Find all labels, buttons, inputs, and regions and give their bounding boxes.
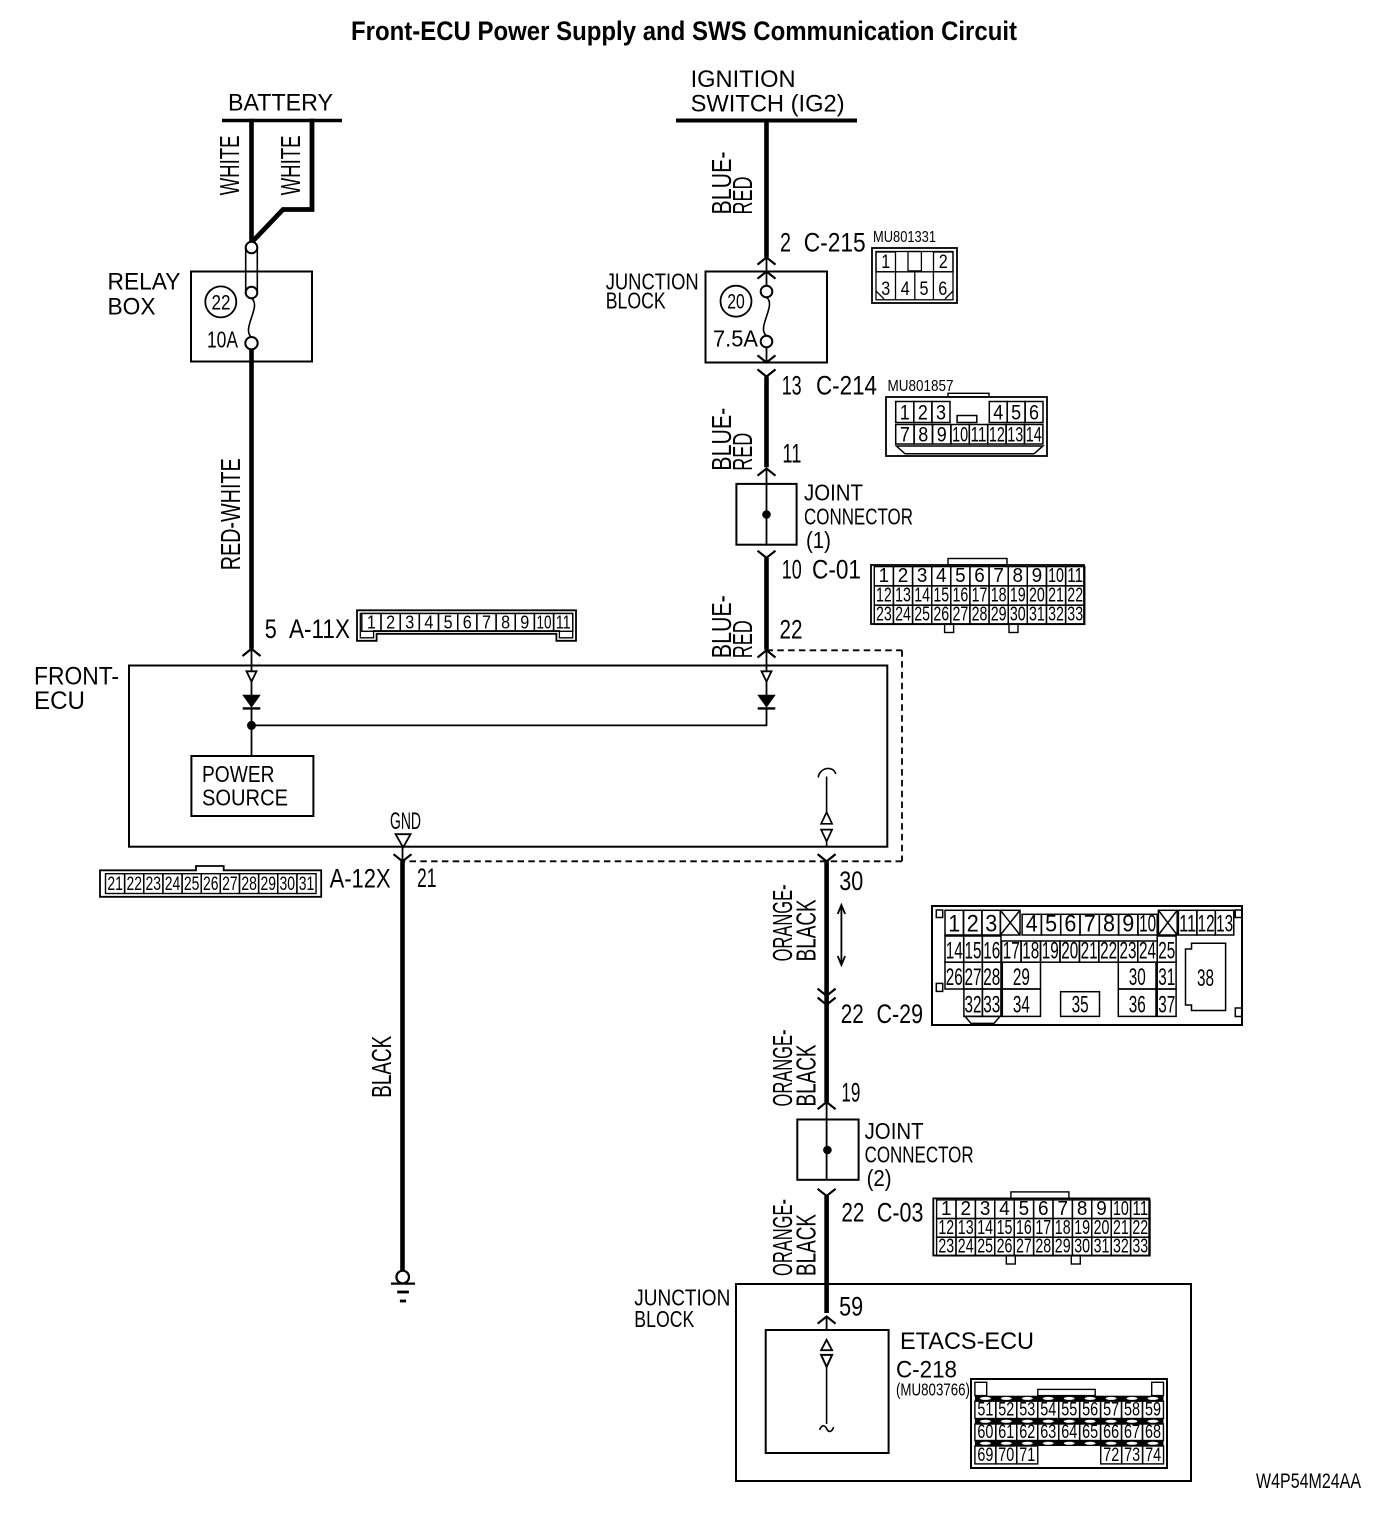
- svg-text:W4P54M24AA: W4P54M24AA: [1256, 1470, 1361, 1493]
- svg-text:5: 5: [1045, 910, 1057, 937]
- svg-text:4: 4: [1026, 910, 1038, 937]
- svg-text:38: 38: [1197, 965, 1214, 992]
- svg-text:5: 5: [444, 613, 453, 633]
- svg-text:16: 16: [983, 937, 1000, 964]
- svg-text:61: 61: [998, 1422, 1014, 1443]
- svg-text:11: 11: [1179, 910, 1196, 937]
- svg-text:3: 3: [936, 401, 946, 424]
- svg-text:22: 22: [780, 614, 803, 644]
- svg-text:C-214: C-214: [816, 371, 877, 401]
- svg-text:59: 59: [839, 1291, 863, 1321]
- svg-text:RED: RED: [727, 620, 758, 658]
- svg-text:19: 19: [841, 1078, 860, 1108]
- svg-text:62: 62: [1019, 1422, 1035, 1443]
- svg-text:59: 59: [1145, 1400, 1161, 1421]
- svg-text:(2): (2): [867, 1165, 892, 1191]
- svg-text:1: 1: [881, 252, 890, 273]
- svg-text:2: 2: [918, 401, 928, 424]
- svg-text:30: 30: [1010, 604, 1026, 626]
- svg-text:2: 2: [386, 613, 395, 633]
- svg-text:33: 33: [1132, 1235, 1148, 1257]
- svg-text:1: 1: [900, 401, 910, 424]
- svg-text:2: 2: [780, 228, 791, 258]
- svg-text:64: 64: [1061, 1422, 1077, 1443]
- svg-text:28: 28: [983, 964, 1000, 991]
- svg-text:29: 29: [260, 874, 276, 895]
- svg-text:13: 13: [782, 371, 802, 401]
- svg-text:JOINT: JOINT: [804, 479, 863, 505]
- svg-text:74: 74: [1145, 1445, 1161, 1466]
- svg-text:22: 22: [126, 874, 142, 895]
- svg-text:31: 31: [299, 874, 315, 895]
- svg-text:7: 7: [482, 613, 491, 633]
- svg-text:23: 23: [938, 1235, 954, 1257]
- svg-text:27: 27: [965, 964, 982, 991]
- svg-text:25: 25: [977, 1235, 993, 1257]
- svg-text:MU801857: MU801857: [888, 378, 954, 395]
- svg-text:26: 26: [997, 1235, 1013, 1257]
- svg-text:12: 12: [1198, 910, 1215, 937]
- svg-text:5: 5: [1011, 401, 1021, 424]
- svg-text:56: 56: [1082, 1400, 1098, 1421]
- svg-text:25: 25: [1158, 937, 1175, 964]
- svg-text:20: 20: [727, 291, 745, 314]
- svg-text:10: 10: [1139, 910, 1156, 937]
- svg-text:36: 36: [1129, 991, 1146, 1018]
- svg-text:RED-WHITE: RED-WHITE: [215, 458, 246, 570]
- svg-text:17: 17: [1003, 937, 1020, 964]
- svg-text:C-29: C-29: [877, 999, 924, 1029]
- svg-text:22: 22: [841, 999, 864, 1029]
- svg-text:5: 5: [265, 614, 277, 644]
- svg-text:25: 25: [184, 874, 200, 895]
- svg-text:RED: RED: [727, 433, 758, 471]
- svg-text:6: 6: [1064, 910, 1076, 937]
- svg-text:8: 8: [918, 423, 928, 446]
- svg-text:6: 6: [1029, 401, 1039, 424]
- svg-text:14: 14: [946, 937, 963, 964]
- svg-text:8: 8: [1103, 910, 1115, 937]
- svg-text:2: 2: [939, 252, 948, 273]
- svg-text:22: 22: [1100, 937, 1117, 964]
- svg-text:10: 10: [952, 423, 968, 446]
- svg-text:27: 27: [953, 604, 969, 626]
- svg-text:34: 34: [1013, 991, 1030, 1018]
- svg-text:7.5A: 7.5A: [713, 326, 758, 352]
- svg-text:BLACK: BLACK: [366, 1035, 397, 1097]
- svg-text:73: 73: [1124, 1445, 1140, 1466]
- svg-text:BLOCK: BLOCK: [634, 1306, 694, 1332]
- svg-text:69: 69: [977, 1445, 993, 1466]
- svg-text:29: 29: [1013, 964, 1030, 991]
- svg-text:55: 55: [1061, 1400, 1077, 1421]
- svg-text:8: 8: [501, 613, 510, 633]
- svg-text:CONNECTOR: CONNECTOR: [865, 1141, 974, 1167]
- svg-text:53: 53: [1019, 1400, 1035, 1421]
- svg-text:60: 60: [977, 1422, 993, 1443]
- svg-text:66: 66: [1103, 1422, 1119, 1443]
- svg-text:32: 32: [965, 991, 982, 1018]
- svg-text:67: 67: [1124, 1422, 1140, 1443]
- svg-text:IGNITION: IGNITION: [691, 66, 796, 93]
- svg-text:30: 30: [280, 874, 296, 895]
- svg-text:23: 23: [1120, 937, 1137, 964]
- svg-text:C-01: C-01: [812, 555, 861, 585]
- svg-text:32: 32: [1113, 1235, 1129, 1257]
- svg-text:A-12X: A-12X: [330, 864, 391, 894]
- svg-text:SWITCH (IG2): SWITCH (IG2): [691, 90, 845, 117]
- svg-text:11: 11: [971, 423, 987, 446]
- svg-text:9: 9: [1122, 910, 1134, 937]
- svg-text:(MU803766): (MU803766): [896, 1379, 970, 1399]
- svg-text:35: 35: [1072, 991, 1089, 1018]
- svg-text:14: 14: [1026, 423, 1042, 446]
- svg-text:51: 51: [977, 1400, 993, 1421]
- svg-text:63: 63: [1040, 1422, 1056, 1443]
- svg-text:33: 33: [983, 991, 1000, 1018]
- svg-text:1: 1: [948, 910, 960, 937]
- svg-text:BLOCK: BLOCK: [606, 288, 666, 314]
- svg-text:4: 4: [901, 279, 910, 300]
- svg-text:ECU: ECU: [34, 687, 85, 715]
- svg-text:24: 24: [165, 874, 181, 895]
- svg-text:4: 4: [993, 401, 1003, 424]
- svg-text:21: 21: [1081, 937, 1098, 964]
- svg-text:25: 25: [914, 604, 930, 626]
- svg-text:5: 5: [920, 279, 929, 300]
- svg-text:10: 10: [782, 555, 802, 585]
- svg-text:JOINT: JOINT: [865, 1118, 924, 1144]
- svg-text:9: 9: [520, 613, 529, 633]
- svg-text:18: 18: [1022, 937, 1039, 964]
- svg-text:65: 65: [1082, 1422, 1098, 1443]
- svg-text:24: 24: [895, 604, 911, 626]
- svg-text:72: 72: [1103, 1445, 1119, 1466]
- svg-text:26: 26: [203, 874, 219, 895]
- svg-text:BLACK: BLACK: [791, 1214, 822, 1276]
- svg-text:31: 31: [1158, 964, 1175, 991]
- svg-text:22: 22: [841, 1198, 864, 1228]
- svg-text:BLACK: BLACK: [791, 1044, 822, 1106]
- svg-text:BLACK: BLACK: [791, 899, 822, 961]
- svg-text:13: 13: [1216, 910, 1233, 937]
- svg-text:RELAY: RELAY: [108, 268, 181, 295]
- svg-text:52: 52: [998, 1400, 1014, 1421]
- svg-text:30: 30: [839, 866, 863, 896]
- svg-text:58: 58: [1124, 1400, 1140, 1421]
- svg-text:ETACS-ECU: ETACS-ECU: [900, 1328, 1034, 1355]
- svg-text:(1): (1): [806, 527, 831, 553]
- svg-text:MU801331: MU801331: [873, 229, 936, 246]
- svg-text:6: 6: [463, 613, 472, 633]
- svg-text:BATTERY: BATTERY: [228, 90, 333, 117]
- svg-text:1: 1: [367, 613, 376, 633]
- svg-text:21: 21: [107, 874, 123, 895]
- svg-text:26: 26: [946, 964, 963, 991]
- svg-text:21: 21: [417, 863, 437, 893]
- svg-text:57: 57: [1103, 1400, 1119, 1421]
- svg-text:3: 3: [405, 613, 414, 633]
- svg-text:26: 26: [933, 604, 949, 626]
- svg-text:28: 28: [241, 874, 257, 895]
- svg-text:31: 31: [1029, 604, 1045, 626]
- svg-text:9: 9: [937, 423, 947, 446]
- svg-text:11: 11: [556, 613, 571, 633]
- svg-text:37: 37: [1158, 991, 1175, 1018]
- svg-text:10: 10: [537, 613, 552, 633]
- svg-text:15: 15: [965, 937, 982, 964]
- svg-text:7: 7: [1084, 910, 1096, 937]
- svg-text:71: 71: [1019, 1445, 1035, 1466]
- svg-text:A-11X: A-11X: [289, 614, 350, 644]
- svg-text:29: 29: [1055, 1235, 1071, 1257]
- svg-text:C-215: C-215: [804, 228, 866, 258]
- svg-text:12: 12: [989, 423, 1005, 446]
- svg-text:RED: RED: [727, 177, 758, 215]
- svg-text:3: 3: [985, 910, 997, 937]
- svg-text:11: 11: [782, 439, 801, 469]
- svg-text:4: 4: [424, 613, 433, 633]
- svg-text:68: 68: [1145, 1422, 1161, 1443]
- svg-text:33: 33: [1067, 604, 1083, 626]
- svg-text:24: 24: [1139, 937, 1156, 964]
- svg-text:32: 32: [1048, 604, 1064, 626]
- svg-text:13: 13: [1007, 423, 1023, 446]
- svg-text:C-03: C-03: [877, 1198, 924, 1228]
- svg-text:20: 20: [1061, 937, 1078, 964]
- svg-text:22: 22: [212, 291, 231, 314]
- svg-text:CONNECTOR: CONNECTOR: [804, 503, 913, 529]
- svg-text:WHITE: WHITE: [275, 135, 306, 195]
- svg-text:54: 54: [1040, 1400, 1056, 1421]
- svg-text:28: 28: [972, 604, 988, 626]
- svg-text:28: 28: [1035, 1235, 1051, 1257]
- svg-text:70: 70: [998, 1445, 1014, 1466]
- svg-text:WHITE: WHITE: [214, 135, 245, 195]
- svg-text:30: 30: [1074, 1235, 1090, 1257]
- svg-text:BOX: BOX: [108, 294, 156, 321]
- svg-text:2: 2: [967, 910, 979, 937]
- svg-text:SOURCE: SOURCE: [202, 785, 288, 811]
- svg-text:29: 29: [991, 604, 1007, 626]
- svg-text:Front-ECU Power Supply and SWS: Front-ECU Power Supply and SWS Communica…: [351, 16, 1017, 46]
- svg-text:31: 31: [1094, 1235, 1110, 1257]
- svg-text:23: 23: [876, 604, 892, 626]
- svg-text:27: 27: [222, 874, 238, 895]
- svg-text:7: 7: [900, 423, 910, 446]
- svg-text:27: 27: [1016, 1235, 1032, 1257]
- svg-text:POWER: POWER: [202, 761, 275, 787]
- svg-text:6: 6: [938, 279, 947, 300]
- svg-text:24: 24: [958, 1235, 974, 1257]
- svg-text:3: 3: [881, 279, 890, 300]
- svg-text:23: 23: [146, 874, 162, 895]
- svg-text:GND: GND: [390, 808, 421, 835]
- svg-text:10A: 10A: [207, 327, 238, 353]
- svg-text:30: 30: [1129, 964, 1146, 991]
- svg-text:19: 19: [1042, 937, 1059, 964]
